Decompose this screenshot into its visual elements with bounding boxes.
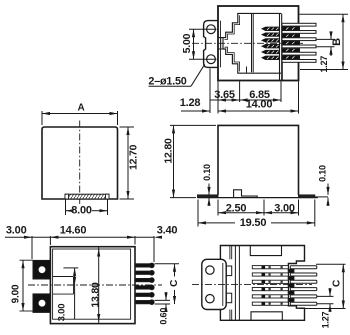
svg-text:3.00: 3.00 <box>274 202 295 214</box>
svg-text:9.00: 9.00 <box>11 284 22 303</box>
svg-text:12.70: 12.70 <box>128 144 140 170</box>
svg-text:C: C <box>331 280 342 287</box>
svg-text:3.65: 3.65 <box>214 89 235 101</box>
svg-text:8.00: 8.00 <box>71 204 92 216</box>
svg-text:12.80: 12.80 <box>162 138 174 164</box>
svg-text:1.27: 1.27 <box>321 311 331 328</box>
svg-text:3.00: 3.00 <box>56 304 67 322</box>
svg-text:3.00: 3.00 <box>6 225 27 237</box>
svg-text:0.10: 0.10 <box>202 164 212 181</box>
svg-text:3.40: 3.40 <box>157 225 178 237</box>
svg-text:14.60: 14.60 <box>60 224 87 236</box>
svg-text:1.28: 1.28 <box>180 97 201 109</box>
svg-text:19.50: 19.50 <box>240 217 267 229</box>
svg-text:2.50: 2.50 <box>226 202 247 214</box>
svg-text:C: C <box>169 280 180 287</box>
svg-text:0.10: 0.10 <box>318 165 328 182</box>
svg-text:14.00: 14.00 <box>246 99 273 111</box>
svg-text:A: A <box>77 102 84 113</box>
svg-text:5.00: 5.00 <box>181 33 193 53</box>
svg-text:13.80: 13.80 <box>89 282 101 308</box>
svg-text:0.60: 0.60 <box>159 308 169 325</box>
svg-text:1.27: 1.27 <box>319 56 329 73</box>
